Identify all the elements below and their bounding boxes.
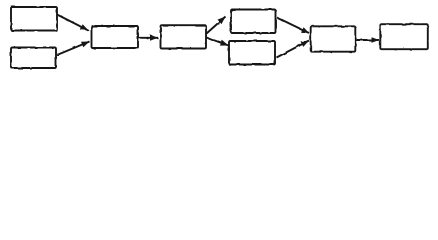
arrow box4 to box6: [207, 38, 229, 46]
arrow box6 to box7: [277, 41, 310, 58]
box 5 (top branch): [231, 10, 276, 34]
box 6 (bottom branch): [229, 41, 275, 65]
box 2 (bottom-left): [11, 48, 56, 69]
arrow box5 to box7: [277, 18, 309, 34]
arrow box7 to box8: [356, 37, 380, 43]
arrow box3 to box4: [139, 35, 159, 41]
box 1 (top-left): [11, 7, 57, 31]
box 7 (second merge): [311, 26, 356, 51]
box 3 (first merge): [92, 26, 139, 48]
arrow box1 to box3: [57, 15, 89, 31]
arrow box4 to box5: [207, 17, 226, 34]
box 8 (final): [380, 24, 428, 49]
box 4 (split source): [161, 25, 207, 48]
arrow box2 to box3: [57, 42, 90, 56]
